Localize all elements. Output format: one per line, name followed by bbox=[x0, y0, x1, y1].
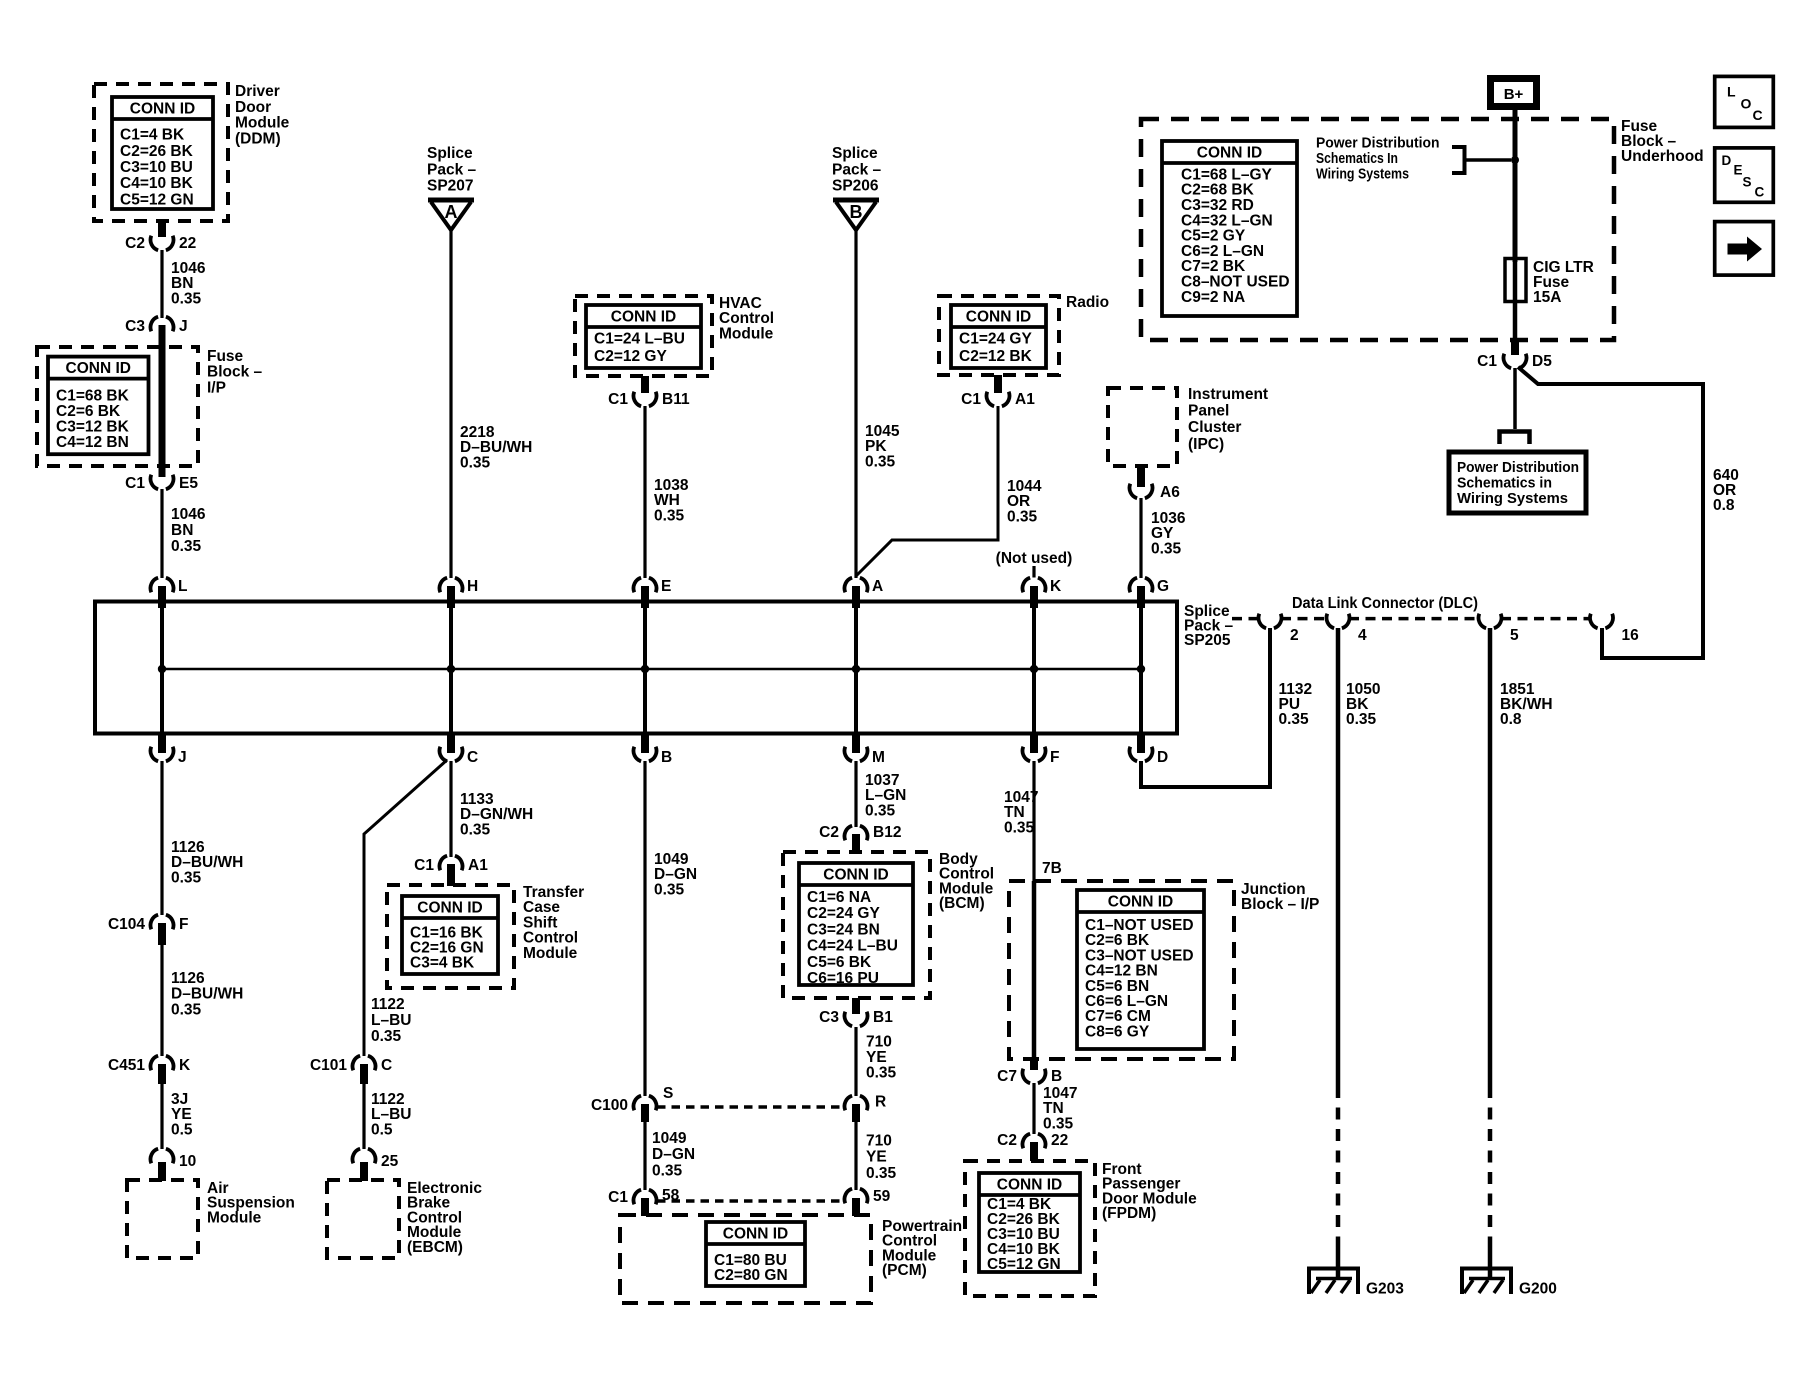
svg-text:C: C bbox=[467, 749, 478, 766]
wire 1126 D-BU/WH upper bbox=[160, 761, 163, 915]
svg-text:E: E bbox=[1734, 163, 1743, 178]
svg-text:O: O bbox=[1741, 96, 1752, 112]
label wire 1126 D-BU/WH 0.35 upper bbox=[171, 839, 243, 886]
svg-text:CONN ID: CONN ID bbox=[417, 900, 482, 917]
svg-text:7B: 7B bbox=[1042, 860, 1062, 877]
svg-text:C3=10 BU: C3=10 BU bbox=[120, 159, 193, 176]
label wire 1036 GY 0.35 bbox=[1151, 510, 1186, 557]
svg-text:C2=26 BK: C2=26 BK bbox=[120, 143, 194, 160]
svg-text:(PCM): (PCM) bbox=[882, 1262, 927, 1279]
wire 1046 BN 0.35 lower bbox=[160, 489, 163, 578]
svg-text:L: L bbox=[1727, 84, 1736, 100]
svg-text:Splice: Splice bbox=[832, 145, 878, 162]
module HVAC Control Module dashed box bbox=[575, 296, 712, 376]
wire stub pin 58 into PCM bbox=[641, 1198, 649, 1216]
wire 1046 BN 0.35 upper bbox=[160, 250, 163, 318]
svg-text:H: H bbox=[467, 578, 478, 595]
svg-text:C1=24 L–BU: C1=24 L–BU bbox=[594, 331, 685, 348]
label wire 1851 BK/WH 0.8 bbox=[1500, 681, 1553, 728]
wire 1044 OR bbox=[856, 406, 998, 576]
DLC dashed bus line bbox=[1232, 617, 1591, 621]
wire stub to C1 D5 bbox=[1511, 340, 1519, 355]
label wire 1047 TN 0.35 upper bbox=[1004, 789, 1038, 836]
svg-text:15A: 15A bbox=[1533, 289, 1561, 306]
wire 1133 D-GN/WH bbox=[449, 761, 452, 857]
wire stub junction block to C7 bbox=[1030, 1059, 1038, 1070]
label wire 1133 D-GN/WH 0.35 bbox=[460, 791, 533, 838]
svg-text:Module: Module bbox=[719, 325, 774, 342]
label Body Control Module (BCM) bbox=[939, 851, 994, 912]
svg-text:F: F bbox=[179, 916, 188, 933]
label wire 1050 BK 0.35 bbox=[1346, 681, 1380, 728]
label wire 1037 L-GN 0.35 bbox=[865, 772, 906, 819]
wire 3J YE 0.5 bbox=[158, 1064, 166, 1149]
svg-text:G203: G203 bbox=[1366, 1281, 1404, 1298]
svg-text:0.35: 0.35 bbox=[171, 290, 202, 307]
svg-text:10: 10 bbox=[179, 1153, 196, 1170]
svg-text:S: S bbox=[663, 1085, 673, 1102]
wire stub IPC to A6 bbox=[1137, 466, 1145, 487]
module Instrument Panel Cluster dashed box bbox=[1108, 388, 1177, 466]
svg-text:Driver: Driver bbox=[235, 83, 280, 100]
svg-text:G200: G200 bbox=[1519, 1281, 1557, 1298]
svg-text:S: S bbox=[1743, 175, 1752, 190]
wire 1047 TN lower bbox=[1032, 1083, 1035, 1134]
svg-text:0.35: 0.35 bbox=[1043, 1115, 1074, 1132]
Radio CONN ID table bbox=[951, 305, 1046, 368]
label wire 710 YE 0.35 upper bbox=[866, 1034, 897, 1082]
svg-text:C104: C104 bbox=[108, 916, 145, 933]
module Air Suspension Module dashed box bbox=[127, 1180, 198, 1258]
svg-text:0.35: 0.35 bbox=[1346, 711, 1377, 728]
svg-text:L–BU: L–BU bbox=[371, 1012, 411, 1029]
splice pack SP206 triangle B bbox=[833, 200, 879, 230]
svg-text:CONN ID: CONN ID bbox=[611, 309, 676, 326]
svg-text:16: 16 bbox=[1622, 627, 1640, 644]
wire 1132 PU bbox=[1268, 628, 1272, 787]
connector pin 25 EBCM bbox=[352, 1149, 398, 1170]
svg-text:0.35: 0.35 bbox=[654, 881, 685, 898]
wire 1122 L-BU 0.5 bbox=[360, 1064, 368, 1149]
label Transfer Case Shift Control Module bbox=[523, 884, 584, 962]
connector C2 pin B12 bbox=[819, 824, 901, 841]
svg-text:C2=6 BK: C2=6 BK bbox=[56, 403, 121, 420]
svg-text:R: R bbox=[875, 1094, 886, 1111]
svg-text:E5: E5 bbox=[179, 475, 198, 492]
svg-text:0.35: 0.35 bbox=[171, 538, 202, 555]
svg-text:C2=80 GN: C2=80 GN bbox=[714, 1267, 788, 1284]
connector pin A6 bbox=[1129, 484, 1180, 501]
module Driver Door Module (DDM) dashed box bbox=[94, 84, 228, 221]
svg-text:5: 5 bbox=[1510, 627, 1519, 644]
svg-text:4: 4 bbox=[1358, 627, 1367, 644]
module FPDM dashed box bbox=[965, 1161, 1095, 1296]
label CIG LTR Fuse 15A bbox=[1533, 259, 1594, 306]
DLC connector pin 16 bbox=[1590, 614, 1639, 644]
svg-text:C4=12 BN: C4=12 BN bbox=[56, 434, 129, 451]
label Power Distribution Schematics In Wiring Systems bbox=[1316, 134, 1440, 182]
svg-text:0.35: 0.35 bbox=[1279, 711, 1310, 728]
connector C7 pin B bbox=[997, 1068, 1062, 1085]
label wire 1038 WH 0.35 bbox=[654, 477, 689, 524]
svg-text:C1: C1 bbox=[125, 475, 145, 492]
svg-text:C2=24 GY: C2=24 GY bbox=[807, 905, 880, 922]
svg-text:SP207: SP207 bbox=[427, 178, 474, 195]
svg-text:D–BU/WH: D–BU/WH bbox=[171, 986, 243, 1003]
svg-text:0.35: 0.35 bbox=[460, 821, 491, 838]
svg-text:C3: C3 bbox=[125, 318, 145, 335]
wire stub into BCM bbox=[852, 834, 860, 852]
wire through junction block bbox=[1032, 881, 1037, 1059]
svg-text:1049: 1049 bbox=[652, 1130, 687, 1147]
svg-text:C4=10 BK: C4=10 BK bbox=[120, 175, 194, 192]
svg-text:Block – I/P: Block – I/P bbox=[1241, 896, 1319, 913]
svg-text:SP206: SP206 bbox=[832, 178, 879, 195]
bus bottom connector pin M bbox=[844, 735, 884, 766]
module Junction Block I/P dashed box bbox=[1009, 881, 1234, 1059]
svg-text:B12: B12 bbox=[873, 824, 901, 841]
wire 1047 TN upper bbox=[1032, 761, 1035, 881]
connector C3 pin B1 bbox=[819, 1009, 893, 1026]
DLC connector pin 4 bbox=[1326, 614, 1367, 644]
legend DESC box bbox=[1715, 148, 1774, 202]
splice pack SP206 label bbox=[832, 145, 882, 195]
svg-text:(EBCM): (EBCM) bbox=[407, 1239, 463, 1256]
label wire 1122 L-BU 0.35 bbox=[371, 996, 411, 1045]
splice pack SP207 label bbox=[427, 145, 477, 195]
wire 2218 D-BU/WH bbox=[449, 230, 452, 578]
wire 710 YE upper bbox=[854, 1027, 857, 1096]
svg-text:C1=4 BK: C1=4 BK bbox=[120, 127, 185, 144]
svg-text:CONN ID: CONN ID bbox=[1108, 894, 1173, 911]
wire stub into air suspension module bbox=[158, 1162, 166, 1181]
svg-text:A1: A1 bbox=[468, 857, 488, 874]
fuse CIG LTR 15A bbox=[1505, 259, 1526, 341]
HVAC CONN ID table bbox=[586, 305, 701, 368]
svg-text:CONN ID: CONN ID bbox=[997, 1177, 1062, 1194]
label wire 1049 D-GN 0.35 lower bbox=[652, 1130, 695, 1179]
label Data Link Connector (DLC) bbox=[1292, 595, 1478, 612]
svg-text:M: M bbox=[872, 749, 885, 766]
svg-text:C: C bbox=[381, 1057, 392, 1074]
Transfer Case CONN ID table bbox=[402, 896, 498, 974]
wire stub HVAC to C1 bbox=[641, 376, 649, 393]
svg-text:(BCM): (BCM) bbox=[939, 895, 985, 912]
svg-text:C1: C1 bbox=[608, 391, 628, 408]
svg-text:0.35: 0.35 bbox=[171, 1001, 202, 1018]
svg-text:C3: C3 bbox=[819, 1009, 839, 1026]
svg-text:YE: YE bbox=[866, 1149, 887, 1166]
svg-text:0.35: 0.35 bbox=[866, 1165, 897, 1182]
DLC connector pin 5 bbox=[1478, 614, 1519, 644]
wire stub BCM to C3 bbox=[852, 998, 860, 1014]
label HVAC Control Module bbox=[719, 295, 774, 342]
label wire 1126 D-BU/WH 0.35 lower bbox=[171, 970, 243, 1018]
svg-text:B11: B11 bbox=[662, 391, 690, 408]
label wire 640 OR 0.8 bbox=[1713, 467, 1739, 514]
connector C1 pin D5 bbox=[1477, 353, 1552, 370]
svg-text:C1: C1 bbox=[608, 1189, 628, 1206]
wire 1049 D-GN lower bbox=[641, 1104, 649, 1190]
dashed link 58 to 59 bbox=[657, 1199, 844, 1203]
bus bottom connector pin B bbox=[633, 735, 672, 766]
svg-text:Power Distribution: Power Distribution bbox=[1316, 134, 1440, 151]
power distribution bracket bbox=[1452, 147, 1511, 173]
connector C104 pin F bbox=[108, 915, 189, 933]
label wire 2218 D-BU/WH 0.35 bbox=[460, 424, 532, 471]
wire 1036 GY bbox=[1139, 498, 1142, 578]
power distribution schematics box bbox=[1449, 452, 1586, 513]
label wire 710 YE 0.35 lower bbox=[866, 1133, 897, 1182]
svg-text:Schematics in: Schematics in bbox=[1457, 475, 1552, 492]
label Front Passenger Door Module (FPDM) bbox=[1102, 1161, 1197, 1222]
svg-text:25: 25 bbox=[381, 1153, 399, 1170]
connector C100 pin S bbox=[591, 1085, 673, 1114]
connector pin R bbox=[844, 1094, 886, 1111]
svg-text:A: A bbox=[872, 578, 883, 595]
svg-text:Instrument: Instrument bbox=[1188, 386, 1268, 403]
svg-text:Schematics In: Schematics In bbox=[1316, 150, 1398, 167]
wire 1126 D-BU/WH lower bbox=[158, 923, 166, 1056]
label Fuse Block Underhood bbox=[1621, 118, 1704, 165]
label Powertrain Control Module (PCM) bbox=[882, 1218, 962, 1279]
wire stub into transfer case module bbox=[447, 864, 455, 886]
svg-text:C9=2 NA: C9=2 NA bbox=[1181, 289, 1245, 306]
bus top connector pin L bbox=[150, 578, 187, 608]
bus top connector pin K bbox=[1022, 578, 1062, 608]
label wire 1044 OR 0.35 bbox=[1007, 478, 1042, 525]
wire stub into FPDM bbox=[1030, 1142, 1038, 1161]
legend LOC box bbox=[1715, 76, 1774, 127]
svg-text:E: E bbox=[661, 578, 671, 595]
svg-text:J: J bbox=[179, 318, 188, 335]
wire 710 YE lower bbox=[852, 1104, 860, 1190]
svg-text:C: C bbox=[1755, 185, 1765, 200]
svg-text:Module: Module bbox=[235, 115, 290, 132]
connector C3 pin J bbox=[125, 317, 187, 335]
svg-text:Underhood: Underhood bbox=[1621, 148, 1704, 165]
svg-text:C1: C1 bbox=[414, 857, 434, 874]
svg-text:A: A bbox=[445, 202, 458, 222]
label Instrument Panel Cluster (IPC) bbox=[1188, 386, 1268, 453]
label wire 1047 TN 0.35 lower bbox=[1043, 1085, 1077, 1132]
connector pin 10 air suspension bbox=[150, 1149, 196, 1170]
wire stub Radio to C1 bbox=[994, 375, 1002, 393]
svg-text:C3=4 BK: C3=4 BK bbox=[410, 955, 475, 972]
splice pack SP205 internal column wires bbox=[162, 604, 1141, 734]
connector C2 pin 22 bbox=[125, 235, 196, 252]
BCM CONN ID table bbox=[799, 863, 913, 987]
label wire 1046 BN 0.35 lower bbox=[171, 506, 206, 555]
svg-text:C1=24 GY: C1=24 GY bbox=[959, 331, 1032, 348]
svg-text:J: J bbox=[178, 749, 187, 766]
svg-text:G: G bbox=[1157, 578, 1169, 595]
bus top connector pin A bbox=[844, 578, 883, 608]
label Junction Block I/P bbox=[1241, 881, 1319, 913]
svg-text:Wiring Systems: Wiring Systems bbox=[1457, 490, 1568, 507]
label wire 1122 L-BU 0.5 bbox=[371, 1091, 411, 1138]
wire 1038 WH bbox=[643, 406, 646, 578]
legend arrow box bbox=[1715, 222, 1774, 276]
svg-text:C2=12 BK: C2=12 BK bbox=[959, 348, 1033, 365]
svg-text:0.35: 0.35 bbox=[171, 869, 202, 886]
svg-text:0.35: 0.35 bbox=[866, 1064, 897, 1081]
FPDM CONN ID table bbox=[979, 1173, 1080, 1273]
svg-text:(IPC): (IPC) bbox=[1188, 436, 1224, 453]
power distribution connector tab bbox=[1500, 432, 1530, 445]
svg-text:0.35: 0.35 bbox=[1007, 508, 1038, 525]
svg-text:0.35: 0.35 bbox=[371, 1028, 402, 1045]
svg-text:CONN ID: CONN ID bbox=[66, 360, 131, 377]
svg-text:Radio: Radio bbox=[1066, 294, 1109, 311]
wire from pin D to DLC pin 2 bbox=[1141, 628, 1270, 787]
svg-text:(Not used): (Not used) bbox=[996, 550, 1073, 567]
svg-text:CONN ID: CONN ID bbox=[723, 1226, 788, 1243]
wire 640 OR to DLC pin 16 bbox=[1518, 367, 1703, 658]
wire 1045 PK bbox=[854, 230, 857, 578]
svg-text:(DDM): (DDM) bbox=[235, 130, 281, 147]
svg-text:0.8: 0.8 bbox=[1500, 711, 1522, 728]
dashed link S to R bbox=[657, 1105, 844, 1109]
label pin 7B bbox=[1042, 860, 1062, 877]
label Electronic Brake Control Module (EBCM) bbox=[407, 1180, 482, 1256]
label wire 1045 PK 0.35 bbox=[865, 423, 900, 470]
svg-text:Module: Module bbox=[207, 1209, 262, 1226]
splice pack SP207 triangle A bbox=[428, 200, 474, 230]
svg-text:C2: C2 bbox=[819, 824, 839, 841]
bus top connector pin G bbox=[1129, 578, 1169, 608]
svg-text:2: 2 bbox=[1290, 627, 1299, 644]
label Splice Pack SP205 bbox=[1184, 603, 1234, 649]
svg-text:C8=6 GY: C8=6 GY bbox=[1085, 1023, 1150, 1040]
svg-text:C: C bbox=[1753, 107, 1763, 123]
DDM CONN ID table bbox=[112, 97, 213, 209]
svg-text:0.35: 0.35 bbox=[865, 453, 896, 470]
svg-text:0.35: 0.35 bbox=[652, 1162, 683, 1179]
svg-text:C1=6 NA: C1=6 NA bbox=[807, 889, 871, 906]
svg-text:Module: Module bbox=[523, 945, 578, 962]
svg-text:0.35: 0.35 bbox=[865, 802, 896, 819]
connector pin 59 bbox=[844, 1188, 890, 1205]
connector C101 pin C bbox=[310, 1056, 392, 1074]
svg-text:710: 710 bbox=[866, 1133, 892, 1150]
bus top connector pin H bbox=[439, 578, 478, 608]
wire stub DDM to C2 bbox=[158, 221, 166, 237]
module Fuse Block Underhood dashed box bbox=[1141, 119, 1614, 340]
module Transfer Case Shift Control Module dashed box bbox=[387, 885, 514, 988]
module BCM dashed box bbox=[783, 852, 930, 998]
svg-text:CONN ID: CONN ID bbox=[1197, 145, 1262, 162]
wire through fuse block I/P bbox=[159, 325, 166, 477]
svg-text:C6=16 PU: C6=16 PU bbox=[807, 970, 879, 987]
svg-text:CONN ID: CONN ID bbox=[966, 309, 1031, 326]
svg-text:BN: BN bbox=[171, 522, 193, 539]
ground G200 bbox=[1460, 1267, 1557, 1298]
svg-text:C1=68 BK: C1=68 BK bbox=[56, 387, 130, 404]
svg-text:SP205: SP205 bbox=[1184, 632, 1231, 649]
connector C1 pin 58 bbox=[608, 1187, 679, 1206]
svg-text:B+: B+ bbox=[1504, 86, 1524, 103]
svg-text:I/P: I/P bbox=[207, 379, 226, 396]
svg-text:0.35: 0.35 bbox=[460, 454, 491, 471]
Fuse Block Underhood CONN ID table bbox=[1162, 141, 1297, 316]
wire stub pin 59 into PCM bbox=[852, 1198, 860, 1216]
svg-text:B1: B1 bbox=[873, 1009, 893, 1026]
svg-text:Splice: Splice bbox=[427, 145, 473, 162]
label Fuse Block I/P bbox=[207, 348, 263, 396]
svg-text:D: D bbox=[1157, 749, 1168, 766]
connector C1 pin B11 bbox=[608, 391, 690, 408]
svg-text:C2: C2 bbox=[997, 1132, 1017, 1149]
svg-text:C3=12 BK: C3=12 BK bbox=[56, 419, 130, 436]
svg-text:K: K bbox=[179, 1057, 191, 1074]
wire B+ feed bbox=[1513, 110, 1518, 262]
svg-text:B: B bbox=[1051, 1068, 1062, 1085]
svg-text:A6: A6 bbox=[1160, 484, 1180, 501]
svg-text:CONN ID: CONN ID bbox=[823, 867, 888, 884]
wire to power distribution box bbox=[1513, 368, 1517, 429]
svg-text:C3=24 BN: C3=24 BN bbox=[807, 921, 880, 938]
svg-text:C7: C7 bbox=[997, 1068, 1017, 1085]
svg-text:0.35: 0.35 bbox=[1151, 540, 1182, 557]
svg-text:1122: 1122 bbox=[371, 996, 405, 1013]
svg-text:1046: 1046 bbox=[171, 506, 206, 523]
bus bottom connector pin D bbox=[1129, 735, 1168, 766]
label wire 1046 BN 0.35 bbox=[171, 260, 206, 307]
svg-text:Data Link Connector (DLC): Data Link Connector (DLC) bbox=[1292, 595, 1478, 612]
svg-text:0.35: 0.35 bbox=[1004, 819, 1035, 836]
DLC connector pin 2 bbox=[1258, 614, 1298, 644]
wire stub into EBCM bbox=[360, 1162, 368, 1181]
module Radio dashed box bbox=[939, 296, 1059, 375]
svg-text:D: D bbox=[1722, 153, 1732, 168]
connector C2 pin 22 FPDM bbox=[997, 1132, 1068, 1149]
label Radio bbox=[1066, 294, 1109, 311]
svg-text:0.5: 0.5 bbox=[371, 1121, 393, 1138]
unused pin K pigtail bbox=[1032, 566, 1035, 578]
svg-text:B: B bbox=[850, 202, 863, 222]
bus bottom connector pin J bbox=[150, 735, 186, 766]
label Air Suspension Module bbox=[207, 1180, 295, 1226]
svg-text:C2=12 GY: C2=12 GY bbox=[594, 348, 667, 365]
svg-text:C5=6 BK: C5=6 BK bbox=[807, 954, 872, 971]
svg-text:F: F bbox=[1050, 749, 1059, 766]
svg-text:C451: C451 bbox=[108, 1057, 145, 1074]
wire 1050 BK bbox=[1336, 628, 1341, 1279]
svg-text:C4=24 L–BU: C4=24 L–BU bbox=[807, 938, 898, 955]
wire 1049 D-GN upper bbox=[643, 761, 646, 1096]
svg-text:D–GN: D–GN bbox=[652, 1146, 695, 1163]
wire 1037 L-GN bbox=[854, 761, 857, 827]
svg-text:CONN ID: CONN ID bbox=[130, 101, 195, 118]
Fuse Block I/P CONN ID table bbox=[48, 357, 149, 455]
bus bottom connector pin F bbox=[1022, 735, 1059, 766]
connector C1 pin E5 bbox=[125, 475, 198, 492]
Junction Block CONN ID table bbox=[1077, 890, 1204, 1049]
svg-text:Pack –: Pack – bbox=[427, 161, 477, 178]
wire branch diagonal to EBCM bbox=[364, 760, 447, 1056]
svg-text:22: 22 bbox=[179, 235, 196, 252]
module EBCM dashed box bbox=[327, 1180, 399, 1258]
svg-text:B: B bbox=[661, 749, 672, 766]
splice pack SP205 bus rectangle bbox=[95, 602, 1177, 734]
svg-text:Door: Door bbox=[235, 99, 271, 116]
junction dot power branch bbox=[1511, 156, 1519, 164]
module PCM dashed box bbox=[620, 1215, 871, 1303]
svg-text:C100: C100 bbox=[591, 1097, 628, 1114]
svg-text:C2: C2 bbox=[125, 235, 145, 252]
svg-text:C1: C1 bbox=[1477, 353, 1497, 370]
